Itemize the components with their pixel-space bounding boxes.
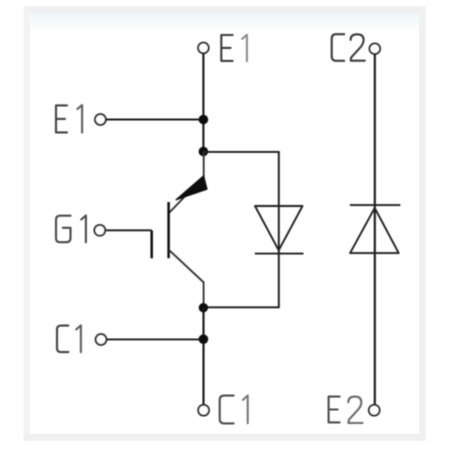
wire: top E1 terminal down to node E1-row and node D1-top <box>202 53 204 151</box>
terminal C2 <box>370 43 381 54</box>
diode D1 (anti-parallel free-wheeling diode) <box>255 206 304 254</box>
node: junction dot E1-row on main rail <box>199 115 209 125</box>
terminal C1 (left) <box>96 334 107 345</box>
wire: main rail from collector junction down to bottom C1 terminal <box>202 308 204 405</box>
transistor Q1 (IGBT): emitter lead with arrow <box>169 152 207 213</box>
wire: C2 terminal down through diode D2 to E2 terminal <box>374 54 376 405</box>
node: junction dot collector bottom (D1 cathode tap) <box>199 303 208 312</box>
transistor Q1 (IGBT): collector lead <box>169 250 204 308</box>
diode D2 (companion diode, E2 to C2) <box>350 205 401 253</box>
wire: gate terminal G1 to gate bar <box>105 229 152 231</box>
node: junction dot C1-row on main rail <box>199 334 209 344</box>
terminal E1 (top) <box>198 43 209 54</box>
wire: left E1 terminal to main rail <box>106 119 203 121</box>
label G1 <box>56 216 86 243</box>
terminal G1 <box>94 225 105 236</box>
label E1 (left) <box>56 105 82 133</box>
transistor Q1 (IGBT): channel bar <box>167 202 170 258</box>
wire: left C1 terminal to main rail <box>107 338 204 340</box>
terminal E2 <box>369 405 380 416</box>
label E1 (top) <box>221 35 247 61</box>
terminal E1 (left) <box>95 114 106 125</box>
label C1 (left) <box>57 325 81 352</box>
label E2 <box>329 397 363 423</box>
wire: D1 branch (right of IGBT): top across, down, bottom across <box>203 152 278 307</box>
label C2 <box>332 34 365 61</box>
transistor Q1 (IGBT): gate bar <box>150 230 153 258</box>
terminal C1 (bottom) <box>198 405 209 416</box>
node: junction dot collector-emitter top (D1 anode tap) <box>199 147 209 157</box>
label C1 (bottom) <box>220 396 248 424</box>
